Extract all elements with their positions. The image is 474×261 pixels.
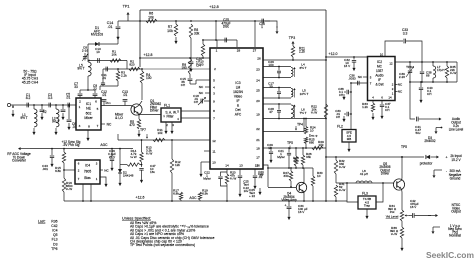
pin stub 28 bbox=[236, 40, 238, 47]
pin 26 bbox=[257, 57, 261, 61]
svg-text:5: 5 bbox=[97, 107, 99, 111]
node supply minus bbox=[446, 170, 448, 174]
capacitor C11b bbox=[101, 67, 108, 86]
svg-text:16 V: 16 V bbox=[410, 205, 417, 209]
capacitor C28 bbox=[259, 19, 265, 30]
svg-text:17: 17 bbox=[256, 156, 260, 160]
wire Q5 collector bbox=[401, 157, 404, 181]
wire corner to pin26 bbox=[265, 21, 279, 34]
op-amp IC1 NE602 mixer bbox=[76, 98, 101, 130]
svg-text:17µH: 17µH bbox=[437, 68, 444, 72]
svg-text:23: 23 bbox=[256, 68, 260, 72]
node AGC label bbox=[100, 143, 108, 147]
svg-text:NC: NC bbox=[104, 169, 109, 173]
svg-text:¼ W: ¼ W bbox=[311, 111, 317, 115]
pin 22 bbox=[256, 127, 260, 131]
wire left supply vertical bbox=[139, 10, 141, 67]
node NC mixer bbox=[101, 123, 112, 127]
node AGC label2 bbox=[189, 196, 197, 200]
diode D1 AFC MV2103 bbox=[88, 26, 118, 46]
diode D2 bbox=[118, 165, 134, 187]
filter FL2 SFE4.5 bbox=[337, 125, 356, 143]
pin 5 mixer bbox=[97, 107, 99, 111]
wire pin27 drop bbox=[254, 21, 256, 47]
capacitor C30b bbox=[335, 109, 352, 122]
svg-text:R36: R36 bbox=[51, 220, 57, 224]
node NC pin4 bbox=[199, 85, 210, 89]
svg-text:IF: IF bbox=[378, 78, 381, 82]
svg-text:TP Test Points (not separat: TP Test Points (not separate connections… bbox=[130, 243, 195, 247]
svg-text:-5V Pch Sig: -5V Pch Sig bbox=[63, 143, 80, 147]
svg-text:190: 190 bbox=[181, 66, 187, 70]
node RF AGC text bbox=[7, 152, 31, 163]
svg-text:21: 21 bbox=[256, 138, 260, 142]
capacitor C40 bbox=[419, 81, 433, 103]
capacitor C14 bbox=[107, 21, 121, 33]
pin 18 bbox=[256, 147, 260, 151]
svg-text:100: 100 bbox=[199, 63, 204, 67]
svg-text:8: 8 bbox=[88, 125, 90, 129]
pin 9 bbox=[213, 100, 215, 104]
pin 28 bbox=[237, 49, 241, 53]
wire mixer top bus bbox=[80, 89, 95, 91]
test point TP5 bbox=[401, 145, 407, 158]
wire audio out bbox=[409, 81, 415, 119]
svg-text:Mylar: Mylar bbox=[203, 177, 211, 181]
svg-text:Driver: Driver bbox=[150, 109, 159, 113]
svg-text:10k: 10k bbox=[112, 53, 117, 57]
svg-text:9½ T: 9½ T bbox=[20, 116, 27, 120]
pin 20 bbox=[256, 99, 260, 103]
svg-text:CH: CH bbox=[427, 92, 431, 96]
capacitor C3 bbox=[48, 93, 53, 107]
node return arrow bbox=[433, 170, 443, 178]
capacitor C7 bbox=[74, 82, 82, 98]
ground FL1 pin3 bbox=[170, 122, 174, 134]
wire FL3 left bbox=[347, 183, 358, 202]
svg-text:16v: 16v bbox=[150, 170, 155, 174]
ground C25b bbox=[258, 188, 261, 195]
svg-text:Trap: Trap bbox=[364, 204, 371, 208]
node +12.8 label bbox=[209, 5, 218, 9]
svg-text:TP6: TP6 bbox=[51, 247, 57, 251]
node supply input arrow bbox=[431, 156, 448, 160]
node audio output bbox=[419, 117, 464, 132]
svg-text:NC: NC bbox=[199, 85, 204, 89]
svg-text:3: 3 bbox=[79, 124, 81, 128]
node +12.0 label bbox=[329, 52, 338, 56]
capacitor C43 bbox=[42, 149, 54, 172]
capacitor C9 bbox=[93, 84, 98, 98]
resistor R9 190 bbox=[181, 58, 191, 74]
capacitor C44 bbox=[108, 149, 116, 172]
node NC IC2 right1 bbox=[395, 83, 403, 87]
pin 1 mixer bbox=[79, 105, 81, 109]
svg-text:¼ W: ¼ W bbox=[146, 152, 152, 156]
svg-text:15: 15 bbox=[255, 164, 259, 168]
filter FL1 SAW bbox=[161, 104, 181, 123]
node input terminal bbox=[7, 103, 10, 106]
capacitor C8 trimmer bbox=[82, 46, 89, 62]
resistor R12 12k bbox=[170, 140, 181, 202]
op-amp IC2 MC1357 bbox=[368, 57, 396, 101]
resistor R19 6.9k bbox=[198, 189, 208, 202]
wire to pins 1/28 bbox=[215, 21, 217, 40]
svg-text:NC: NC bbox=[398, 83, 403, 87]
svg-text:4: 4 bbox=[213, 86, 215, 90]
node notes title bbox=[122, 217, 151, 221]
node Q4 label bbox=[281, 192, 297, 203]
svg-text:6: 6 bbox=[95, 100, 97, 104]
pin 6 IC4 bbox=[78, 162, 80, 166]
node supply text bbox=[449, 154, 462, 181]
wire y157 bbox=[326, 156, 424, 158]
wire pin5 link bbox=[196, 80, 210, 84]
svg-text:.01: .01 bbox=[123, 93, 128, 97]
pin 5 bbox=[213, 79, 215, 83]
ground IC4 right bbox=[100, 177, 108, 187]
ground FL2 bbox=[347, 142, 350, 152]
capacitor C26 label bbox=[268, 60, 274, 67]
svg-text:39: 39 bbox=[269, 85, 273, 89]
capacitor C25b tant bbox=[246, 185, 255, 198]
svg-text:12: 12 bbox=[212, 139, 216, 143]
svg-text:Disc: Disc bbox=[223, 25, 230, 29]
svg-text:100: 100 bbox=[268, 63, 273, 67]
svg-text:.01: .01 bbox=[66, 96, 71, 100]
svg-text:50v: 50v bbox=[416, 131, 421, 135]
pin 12 IC2 bbox=[389, 62, 393, 66]
svg-text:10: 10 bbox=[268, 146, 272, 150]
svg-text:IC3: IC3 bbox=[235, 81, 240, 85]
resistor R28 680 bbox=[293, 148, 299, 168]
capacitor C5 bbox=[66, 93, 71, 108]
capacitor C22 bbox=[203, 171, 227, 187]
wire sound takeoff vertical bbox=[350, 82, 352, 129]
resistor R29 10k bbox=[312, 140, 324, 150]
capacitor C34 bbox=[285, 201, 308, 220]
ground pin10 stub bbox=[199, 162, 210, 177]
svg-text:AGC: AGC bbox=[100, 143, 108, 147]
svg-text:Q5: Q5 bbox=[53, 233, 58, 237]
svg-text:7½ T: 7½ T bbox=[300, 111, 307, 115]
pin 6 mixer bbox=[95, 100, 97, 104]
capacitor C37 bbox=[380, 101, 391, 120]
resistor R27 330 bbox=[283, 168, 293, 188]
svg-text:Det: Det bbox=[235, 108, 240, 112]
svg-text:C42: C42 bbox=[51, 224, 57, 228]
pin 7 IC4 bbox=[78, 177, 80, 181]
wire input line y105 bbox=[11, 104, 76, 106]
ground below C14 bbox=[116, 33, 119, 40]
resistor R4 100 bbox=[140, 69, 151, 100]
svg-text:Unless Specified:: Unless Specified: bbox=[122, 217, 151, 221]
capacitor C10 bbox=[95, 47, 101, 63]
wire IC4 pins down bbox=[83, 184, 91, 201]
pin 14 bbox=[225, 164, 229, 168]
svg-text:10: 10 bbox=[96, 50, 100, 54]
svg-text:14: 14 bbox=[388, 96, 392, 100]
svg-text:602: 602 bbox=[86, 111, 92, 115]
svg-text:33k: 33k bbox=[194, 31, 200, 35]
wire y60.5 left bbox=[88, 60, 127, 62]
tank circuit 1 (C26/L4) bbox=[263, 66, 296, 79]
inductor L7 bbox=[433, 62, 444, 82]
pin 2 IC4 bbox=[78, 169, 80, 173]
wire FL3 right bbox=[376, 183, 383, 202]
resistor R33 1.2k bbox=[362, 101, 375, 121]
pin 19 bbox=[256, 113, 260, 117]
svg-text:6.8k: 6.8k bbox=[173, 192, 179, 196]
svg-text:2: 2 bbox=[79, 100, 81, 104]
resistor R22 on bus bbox=[311, 104, 328, 118]
svg-text:Vid Level: Vid Level bbox=[386, 215, 399, 219]
pin 27 bbox=[253, 49, 257, 53]
capacitor C24b bbox=[258, 165, 265, 177]
svg-text:TP4: TP4 bbox=[297, 123, 303, 127]
pin 24 bbox=[256, 79, 260, 83]
node video return arrow bbox=[432, 227, 441, 234]
resistor R20 47k bbox=[225, 169, 236, 201]
pin 7 mixer bbox=[97, 124, 99, 128]
svg-text:12k: 12k bbox=[175, 163, 180, 167]
svg-text:7: 7 bbox=[97, 124, 99, 128]
svg-text:NC: NC bbox=[398, 90, 403, 94]
pin 7 bbox=[213, 117, 215, 121]
wire y148 right of IC1 bbox=[263, 147, 326, 149]
svg-text:¼ W: ¼ W bbox=[130, 155, 136, 159]
inductor L5 bbox=[77, 44, 91, 90]
svg-text:CH: CH bbox=[385, 108, 389, 112]
resistor R17 6.8k bbox=[173, 189, 183, 202]
diode D3 protector bbox=[420, 136, 436, 166]
svg-text:+ 22: + 22 bbox=[249, 194, 255, 198]
svg-text:¼ W: ¼ W bbox=[450, 71, 456, 75]
wire +12.8 y58 bbox=[139, 57, 210, 59]
svg-text:TP1: TP1 bbox=[123, 5, 130, 9]
svg-text:330: 330 bbox=[283, 174, 288, 178]
svg-text:TP5: TP5 bbox=[401, 145, 407, 149]
wire R15-IC4 bbox=[63, 169, 75, 171]
capacitor C36 bbox=[348, 74, 359, 86]
svg-text:MB: MB bbox=[347, 137, 351, 141]
svg-text:Ground: Ground bbox=[450, 177, 461, 181]
svg-text:MC: MC bbox=[377, 65, 383, 69]
wire FL1 out upper bbox=[181, 110, 210, 112]
svg-text:+: + bbox=[445, 156, 447, 160]
svg-text:41 µH: 41 µH bbox=[360, 172, 368, 176]
wire C14 drop to D1 bbox=[117, 33, 119, 44]
svg-text:.01: .01 bbox=[108, 25, 113, 29]
resistor R11 10k bbox=[153, 128, 165, 142]
transistor Q1 bbox=[131, 101, 142, 115]
capacitor C29 bbox=[267, 143, 273, 163]
svg-text:820: 820 bbox=[129, 63, 134, 67]
wire AGC arrow bbox=[18, 147, 133, 150]
svg-text:10: 10 bbox=[317, 174, 321, 178]
svg-text:1: 1 bbox=[216, 49, 218, 53]
svg-text:IC4: IC4 bbox=[52, 229, 57, 233]
svg-text:3.3: 3.3 bbox=[403, 31, 408, 35]
test point TP7 bbox=[140, 128, 148, 139]
ground below R7 bbox=[174, 37, 177, 44]
svg-text:Last:: Last: bbox=[38, 220, 45, 224]
capacitor C20 bbox=[189, 57, 203, 72]
wire FL1 out lower bbox=[181, 117, 210, 119]
wire y168 bbox=[268, 167, 313, 169]
pin 11 bbox=[212, 150, 215, 154]
pin 2 IC2 bbox=[392, 83, 394, 87]
node NC IC2 pin5 bbox=[358, 75, 368, 79]
ground at input bbox=[11, 105, 14, 117]
svg-text:2N4002: 2N4002 bbox=[424, 139, 435, 143]
wire bypass bus y40 bbox=[202, 39, 237, 41]
node audio return arrow bbox=[435, 127, 443, 134]
capacitor C13 bbox=[122, 90, 128, 106]
resistor R35 22k bbox=[445, 62, 457, 82]
svg-text:470: 470 bbox=[129, 123, 135, 127]
pin 8 mixer bbox=[88, 125, 90, 129]
svg-text:7: 7 bbox=[213, 117, 215, 121]
svg-text:FL1: FL1 bbox=[164, 104, 170, 108]
pin 2 mixer bbox=[79, 100, 81, 104]
pin 12 bbox=[212, 139, 216, 143]
svg-text:IF: IF bbox=[237, 99, 240, 103]
pin 4 IC2 bbox=[372, 96, 374, 100]
wire base y183 bbox=[336, 182, 394, 184]
resistor R25 680 bbox=[304, 137, 315, 149]
svg-text:CH: CH bbox=[339, 93, 343, 97]
wire y69 bbox=[103, 61, 210, 70]
capacitor C12 bbox=[101, 90, 107, 106]
inductor L8 bbox=[356, 169, 372, 183]
pin 10 IC2 bbox=[380, 53, 384, 57]
capacitor C23 bbox=[238, 169, 249, 197]
svg-text:10: 10 bbox=[310, 129, 314, 133]
svg-text:Mylar: Mylar bbox=[277, 155, 285, 159]
svg-text:¼ W: ¼ W bbox=[66, 187, 72, 191]
pin 8 bbox=[213, 109, 215, 113]
wire mixer output bbox=[101, 101, 131, 106]
svg-text:3: 3 bbox=[213, 92, 215, 96]
wire y86 bbox=[100, 81, 118, 90]
svg-text:Output: Output bbox=[451, 210, 461, 214]
svg-text:6½ T: 6½ T bbox=[300, 66, 307, 70]
svg-text:Video: Video bbox=[234, 95, 243, 99]
wire y60 right of IC1 bbox=[263, 59, 326, 61]
inductor L4 label bbox=[300, 63, 307, 70]
resistor R36 390 bbox=[390, 221, 404, 251]
wire x120 drop bbox=[119, 148, 121, 165]
node IC3 label bbox=[233, 81, 243, 117]
pin 4 bbox=[213, 86, 215, 90]
capacitor C39 trimmer bbox=[399, 62, 414, 82]
svg-text:Line Level: Line Level bbox=[449, 128, 464, 132]
svg-text:+12.6: +12.6 bbox=[136, 196, 145, 200]
node Q5 label bbox=[379, 162, 390, 176]
op-amp IC4 7805 bbox=[75, 160, 100, 184]
pin 1 IC4 bbox=[96, 177, 98, 181]
svg-text:& Det: & Det bbox=[376, 83, 384, 87]
svg-text:26: 26 bbox=[257, 57, 261, 61]
pin 13 bbox=[239, 164, 243, 168]
wire Q4 emitter bbox=[303, 191, 305, 202]
pin 7 IC2 bbox=[370, 82, 372, 86]
pin 6 IC2 bbox=[381, 96, 383, 100]
node NC pin3 bbox=[199, 91, 210, 95]
test point TP1 bbox=[123, 5, 130, 22]
resistor R32 330 bbox=[334, 157, 345, 183]
test point TP5b bbox=[287, 141, 293, 150]
resistor R3 2.2k bbox=[116, 69, 127, 86]
resistor R2 820 bbox=[129, 60, 140, 71]
capacitor C33 bbox=[385, 28, 422, 62]
resistor R13 3.3k bbox=[140, 140, 153, 167]
svg-text:.01: .01 bbox=[102, 93, 107, 97]
svg-text:SeekIC.com: SeekIC.com bbox=[426, 250, 474, 260]
pin 16 bbox=[256, 164, 260, 168]
svg-text:1: 1 bbox=[261, 25, 263, 29]
node +12.8 label 2 bbox=[144, 53, 153, 57]
svg-text:LM: LM bbox=[236, 86, 241, 90]
capacitor C41 bbox=[415, 117, 421, 136]
svg-text:1823N: 1823N bbox=[233, 90, 243, 94]
svg-text:8.2: 8.2 bbox=[26, 96, 31, 100]
svg-text:FL3: FL3 bbox=[362, 192, 368, 196]
svg-text:25: 25 bbox=[256, 89, 260, 93]
wire pin19 y131.5 bbox=[263, 131, 304, 133]
svg-text:2-20: 2-20 bbox=[399, 75, 405, 79]
capacitor C32 bbox=[344, 57, 356, 71]
node NTSC video out bbox=[428, 203, 461, 217]
inductor L3 bbox=[52, 105, 59, 135]
capacitor C21 bbox=[277, 148, 291, 168]
svg-text:27: 27 bbox=[253, 49, 257, 53]
capacitor C47 bbox=[139, 164, 156, 183]
svg-text:9: 9 bbox=[213, 100, 215, 104]
pin stub 1 bbox=[216, 40, 218, 47]
svg-text:25 V: 25 V bbox=[109, 155, 116, 159]
pin 4 FL1 bbox=[177, 117, 179, 121]
svg-text:D3: D3 bbox=[53, 242, 57, 246]
test point TP3 bbox=[289, 36, 295, 46]
node watermark bbox=[426, 250, 474, 260]
svg-text:6.8k: 6.8k bbox=[55, 169, 61, 173]
resistor R1 10k bbox=[110, 50, 121, 63]
svg-text:10k: 10k bbox=[158, 131, 163, 135]
wire Q5 emitter bbox=[401, 189, 404, 210]
svg-text:MV2103: MV2103 bbox=[91, 33, 103, 37]
svg-text:3.3: 3.3 bbox=[48, 96, 53, 100]
svg-text:NE: NE bbox=[86, 107, 91, 111]
pin 23 bbox=[256, 68, 260, 72]
svg-text:¼ W: ¼ W bbox=[339, 165, 345, 169]
node mixer LO label bbox=[115, 113, 124, 121]
svg-text:8: 8 bbox=[213, 109, 215, 113]
tank circuit 3 (C28/L6) bbox=[263, 103, 296, 119]
svg-text:22: 22 bbox=[256, 127, 260, 131]
svg-text:.001: .001 bbox=[42, 167, 48, 171]
node Dec label bbox=[309, 134, 317, 138]
test point TP4 bbox=[295, 123, 303, 131]
capacitor C6 bbox=[67, 105, 77, 130]
svg-text:16 V: 16 V bbox=[344, 64, 351, 68]
node video spec text bbox=[448, 224, 462, 238]
capacitor C17 label bbox=[268, 82, 274, 89]
wire +12.6 rail bbox=[64, 200, 347, 202]
wire IC2 pin7 link bbox=[351, 82, 368, 84]
svg-text:68: 68 bbox=[426, 74, 430, 78]
